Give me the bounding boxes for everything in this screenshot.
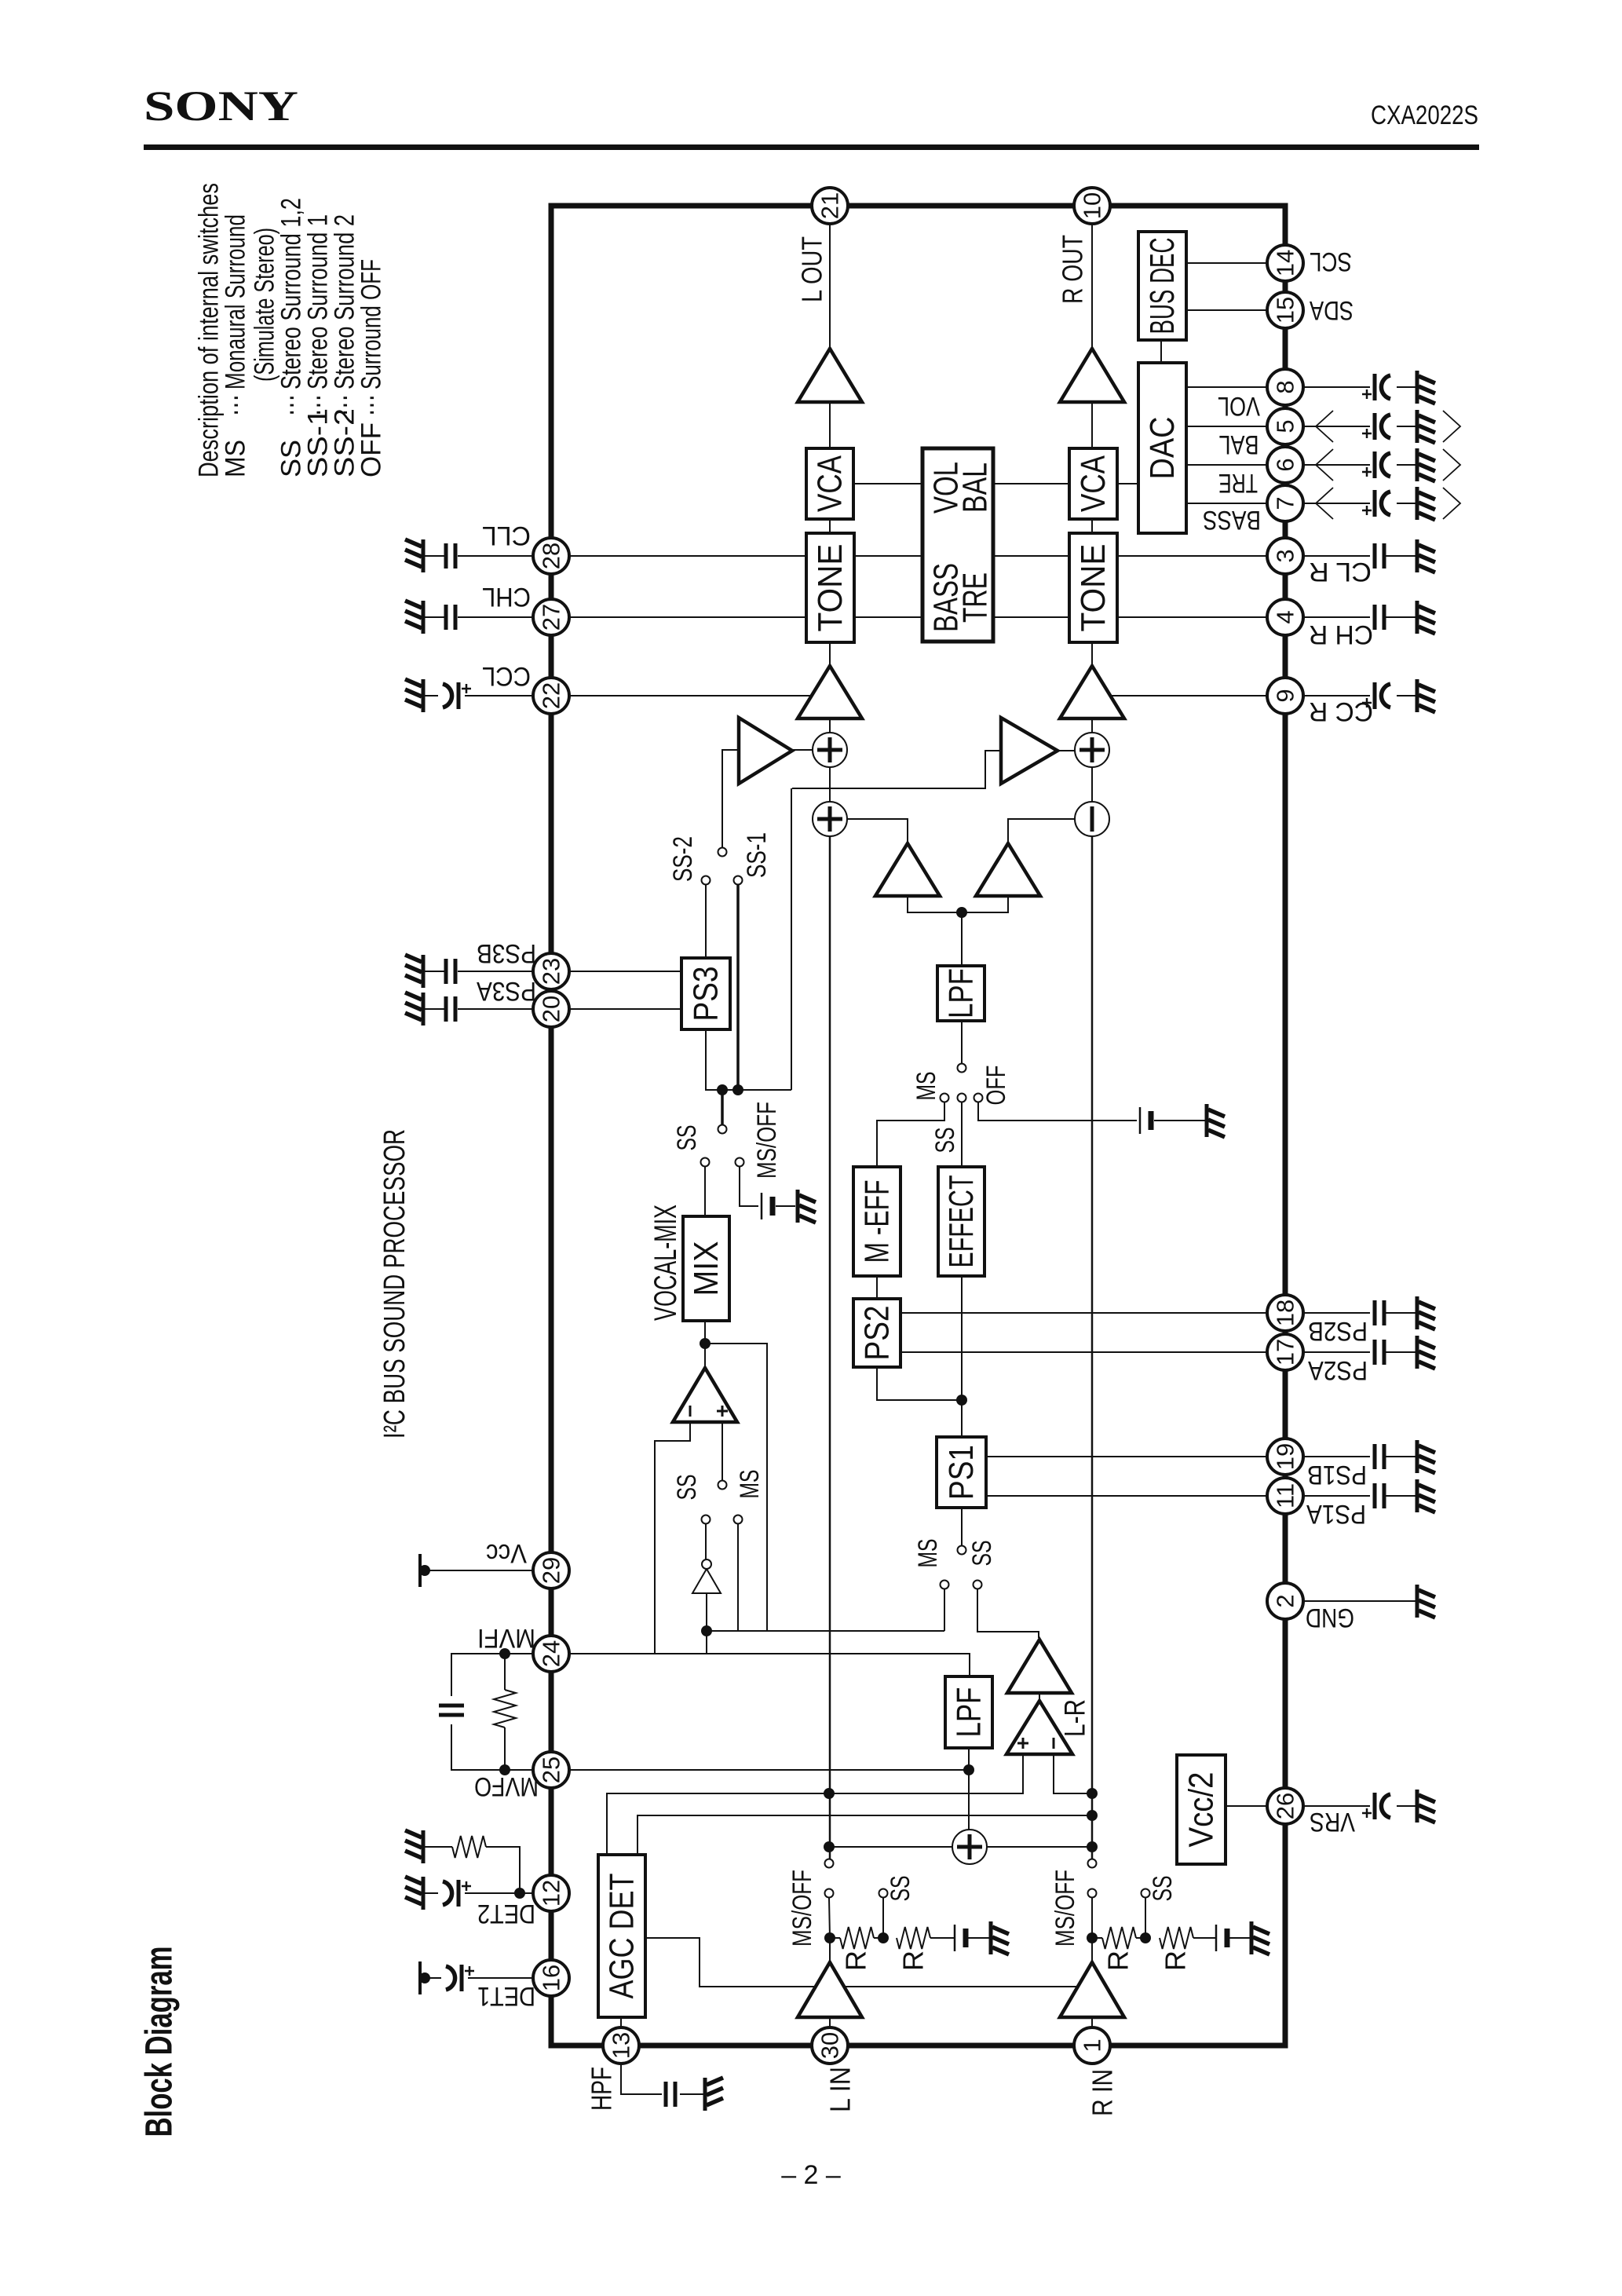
wire L gain amp to L sum1 xyxy=(792,749,813,751)
label R IN xyxy=(1087,2069,1119,2116)
block BUS DEC xyxy=(1138,232,1186,340)
label SDA xyxy=(1310,295,1353,325)
wire AGC gain control xyxy=(645,1938,1079,1987)
svg-text:MS: MS xyxy=(913,1539,943,1568)
label R SS xyxy=(1148,1876,1178,1902)
IC boundary xyxy=(551,206,1285,2046)
wire MVFI line pin24 to LPF xyxy=(569,1654,970,1676)
svg-text:MIX: MIX xyxy=(687,1241,725,1296)
label R feedback L2 xyxy=(897,1951,930,1971)
junction PS3 net B xyxy=(732,1084,743,1095)
page number xyxy=(781,2160,841,2190)
wire pin28 to external capacitor xyxy=(458,555,533,557)
svg-text:R: R xyxy=(897,1951,930,1971)
capacitor at pin 20 xyxy=(446,996,455,1022)
Vcc terminal xyxy=(419,1554,430,1587)
junction inverter MS net xyxy=(701,1625,712,1636)
switch PS1 throw SS xyxy=(974,1581,982,1589)
svg-text:SCL: SCL xyxy=(1310,247,1352,276)
wire capacitor to ground pin 8 xyxy=(1397,386,1416,388)
resistor R feedback L2 xyxy=(897,1927,955,1949)
block M-EFF xyxy=(853,1167,901,1276)
ground at pin 7 xyxy=(1417,487,1435,520)
svg-text:R IN: R IN xyxy=(1087,2069,1119,2116)
svg-text:SS-1: SS-1 xyxy=(742,832,772,878)
svg-text:SS: SS xyxy=(1148,1876,1178,1902)
wire pin13 HPF lead xyxy=(621,2064,662,2094)
svg-text:Block Diagram: Block Diagram xyxy=(139,1947,181,2137)
capacitor at pin 3 xyxy=(1375,543,1384,569)
wire rail CLL pin28 to CL R pin3 xyxy=(569,555,1267,557)
svg-text:DAC: DAC xyxy=(1143,417,1182,480)
wire PS1 to mode switch common xyxy=(961,1508,963,1545)
pin 1 (R IN) xyxy=(1074,2027,1110,2064)
svg-text:24: 24 xyxy=(538,1640,565,1667)
SONY logo xyxy=(144,82,298,130)
label CL R xyxy=(1309,557,1372,587)
svg-text:2: 2 xyxy=(1272,1594,1299,1607)
junction R chain adder xyxy=(1087,1841,1098,1852)
wire PS2 to pin17 xyxy=(901,1351,1267,1353)
svg-text:10: 10 xyxy=(1079,192,1106,219)
pin 16 (DET1) xyxy=(533,1960,569,1996)
part number CXA2022S xyxy=(1371,101,1478,130)
svg-text:SS: SS xyxy=(967,1541,997,1567)
junction DET2 xyxy=(514,1888,525,1899)
wire capacitor to ground pin 7 xyxy=(1397,503,1416,504)
svg-text:BAL: BAL xyxy=(1219,430,1259,459)
svg-text:VCA: VCA xyxy=(811,455,849,512)
svg-text:8: 8 xyxy=(1272,380,1299,393)
switch PS1 throw MS xyxy=(941,1581,949,1589)
svg-text:17: 17 xyxy=(1272,1339,1299,1366)
svg-text:25: 25 xyxy=(538,1757,565,1783)
wire pin30 to L input amp xyxy=(829,2017,831,2027)
svg-text:L-R: L-R xyxy=(1059,1699,1091,1737)
pin 15 (SDA) xyxy=(1267,292,1303,328)
wire R subtract to difference amp B xyxy=(1008,819,1075,843)
label TRE xyxy=(1218,468,1258,498)
junction MVFI resistor xyxy=(499,1648,510,1659)
wire pin7 to external capacitor xyxy=(1303,503,1370,504)
svg-text:EFFECT: EFFECT xyxy=(942,1175,981,1268)
svg-text:PS3A: PS3A xyxy=(477,976,536,1006)
wire capacitor to ground pin 20 xyxy=(425,1008,444,1010)
switch vocal common xyxy=(718,1481,727,1490)
wire capacitor to ground pin 28 xyxy=(425,555,444,557)
svg-text:PS2B: PS2B xyxy=(1308,1316,1368,1346)
wire pin23 to external capacitor xyxy=(458,971,533,972)
amplifier R output xyxy=(1060,349,1124,402)
wire L output amp to VCA L xyxy=(829,402,831,448)
amplifier L-R gain xyxy=(1007,1640,1072,1693)
capacitor at pin 18 xyxy=(1375,1300,1384,1325)
ground at pin 27 xyxy=(405,601,423,634)
wire pin1 to R input amp xyxy=(1091,2017,1093,2027)
pin 27 (CHL) xyxy=(533,599,569,635)
label R OUT xyxy=(1057,235,1089,304)
label mix MS/OFF xyxy=(752,1102,782,1179)
wire MS throw down xyxy=(737,1524,739,1631)
pin 22 (CCL) xyxy=(533,678,569,714)
inverter MVFI xyxy=(692,1559,721,1593)
capacitor at pin 17 xyxy=(1375,1340,1384,1365)
ground at pin 12 xyxy=(405,1877,423,1910)
wire BUS DEC to pin14 SCL xyxy=(1186,262,1267,264)
ground at pin 4 xyxy=(1417,601,1435,634)
label L SS xyxy=(886,1876,915,1902)
junction MVFO LPF xyxy=(963,1764,974,1775)
pin 18 (PS2B) xyxy=(1267,1295,1303,1331)
pin 4 (CH R) xyxy=(1267,599,1303,635)
wire SS throw to EFFECT xyxy=(961,1102,963,1167)
junction L chain adder xyxy=(824,1841,835,1852)
label vocal MS xyxy=(735,1470,765,1499)
svg-text:TRE: TRE xyxy=(1218,468,1258,498)
polarized capacitor at pin 5 xyxy=(1362,413,1390,440)
wire op amp plus to MS/SS switch xyxy=(721,1422,723,1480)
svg-text:9: 9 xyxy=(1272,689,1299,702)
svg-text:PS2: PS2 xyxy=(858,1306,897,1361)
ground at pin 2 xyxy=(1417,1585,1435,1618)
label DET2 xyxy=(477,1899,535,1929)
ground at pin 9 xyxy=(1417,679,1435,712)
wire capacitor to ground pin 5 xyxy=(1397,426,1416,427)
wire R post amp to R sum 1 xyxy=(1091,718,1093,733)
pin 5 (BAL) xyxy=(1267,408,1303,444)
svg-text:3: 3 xyxy=(1272,549,1299,562)
wire difference pair common xyxy=(908,896,1008,912)
amplifier R post tone xyxy=(1060,666,1124,718)
ground mix MS/OFF xyxy=(798,1190,816,1223)
switch vocal throw MS xyxy=(734,1515,743,1524)
junction PS3 net A xyxy=(717,1084,728,1095)
svg-text:21: 21 xyxy=(816,192,844,219)
label mix SS xyxy=(672,1125,702,1151)
svg-text:CCL: CCL xyxy=(482,661,531,691)
wire VCA R to TONE R xyxy=(1091,519,1093,533)
wire SS-1 node to R gain amp xyxy=(792,751,1001,788)
svg-text:Vcc: Vcc xyxy=(486,1538,527,1568)
wire PS1 to pin11 xyxy=(986,1495,1267,1497)
svg-text:MS/OFF: MS/OFF xyxy=(1050,1870,1080,1947)
switch mix common xyxy=(718,1125,727,1134)
wire MS/OFF throw to cap xyxy=(740,1167,758,1206)
switch SS-2/SS-1 common xyxy=(718,848,727,857)
wire SS-2 contact to PS3 xyxy=(705,885,707,958)
subtract node R xyxy=(1075,802,1109,836)
switch mix throw SS xyxy=(701,1158,710,1167)
amplifier L post tone xyxy=(798,666,862,718)
switch effect throw OFF xyxy=(974,1094,983,1102)
svg-text:28: 28 xyxy=(538,543,565,569)
wire pin5 to external capacitor xyxy=(1303,426,1370,427)
capacitor at pin 11 xyxy=(1375,1483,1384,1508)
wire pin19 to external capacitor xyxy=(1303,1456,1370,1457)
label CC R xyxy=(1309,696,1373,726)
pin 7 (BASS) xyxy=(1267,485,1303,521)
svg-text:SDA: SDA xyxy=(1310,295,1353,325)
wire MS throw to M-EFF xyxy=(877,1102,944,1167)
wire L chain switch to feedback node xyxy=(829,1898,830,1962)
wire OFF cap to ground xyxy=(1154,1120,1205,1121)
wire DAC to pin8 VOL xyxy=(1186,386,1267,388)
note MS monaural surround xyxy=(221,214,251,477)
wire PS3 net riser xyxy=(791,788,792,1090)
ground at pin 8 xyxy=(1417,371,1435,404)
pin 28 (CLL) xyxy=(533,538,569,574)
amplifier SS gain L xyxy=(739,718,792,784)
wire L sum2 to difference amp A xyxy=(847,819,908,843)
svg-text:L OUT: L OUT xyxy=(796,236,828,302)
wire L SS contact to node xyxy=(882,1898,884,1938)
svg-text:PS1: PS1 xyxy=(942,1445,981,1500)
svg-text:MS: MS xyxy=(911,1072,941,1101)
wire capacitor to ground pin 26 xyxy=(1397,1805,1416,1807)
wire pin29 Vcc lead xyxy=(425,1570,533,1571)
wire feedback cap R to ground xyxy=(1229,1937,1250,1939)
label PS1B xyxy=(1307,1460,1367,1490)
wire PS1 SS throw to L-R amp xyxy=(977,1589,1039,1638)
block Vcc/2 xyxy=(1177,1755,1226,1864)
block TONE R xyxy=(1069,533,1117,642)
label BAL xyxy=(1219,430,1259,459)
polarized capacitor at pin 6 xyxy=(1362,452,1390,478)
svg-text:Surround OFF: Surround OFF xyxy=(356,259,387,389)
junction L feedback xyxy=(824,1932,835,1943)
svg-text:BUS DEC: BUS DEC xyxy=(1143,238,1182,335)
wire mix cap to ground xyxy=(776,1205,795,1207)
wire PS2 to pin18 xyxy=(901,1312,1267,1314)
capacitor HPF xyxy=(666,2082,675,2107)
switch throw SS-1 xyxy=(734,876,743,885)
junction MVFO resistor xyxy=(499,1764,510,1775)
switch throw SS-2 xyxy=(702,876,711,885)
label R feedback L1 xyxy=(840,1951,872,1971)
junction R chain L-R minus xyxy=(1087,1788,1098,1799)
svg-text:SONY: SONY xyxy=(144,82,298,130)
summing node R 1 xyxy=(1075,733,1109,767)
ground at pin 20 xyxy=(405,993,423,1026)
svg-text:– 2 –: – 2 – xyxy=(781,2160,841,2190)
svg-text:TONE: TONE xyxy=(811,544,849,632)
polarized capacitor at pin 16 xyxy=(446,1965,474,1991)
svg-text:OFF: OFF xyxy=(356,422,387,477)
note SS stereo surround 1,2 xyxy=(276,198,307,477)
block DAC xyxy=(1138,363,1186,533)
wire capacitor to ground pin 11 xyxy=(1386,1495,1416,1497)
svg-text:Vcc/2: Vcc/2 xyxy=(1182,1772,1221,1848)
svg-text:1: 1 xyxy=(1079,2038,1106,2052)
label effect SS xyxy=(930,1128,960,1153)
polarized capacitor at pin 9 xyxy=(1362,682,1390,709)
resistor R feedback L1 xyxy=(830,1927,883,1949)
label I2C BUS SOUND PROCESSOR xyxy=(378,1129,411,1439)
label CLL xyxy=(482,521,531,550)
wire feedback cap L to ground xyxy=(967,1937,989,1939)
wire resistor branch top xyxy=(504,1654,506,1690)
wire pin20 to PS3 xyxy=(569,1008,681,1010)
switch effect throw MS xyxy=(941,1094,949,1102)
svg-text:26: 26 xyxy=(1272,1793,1299,1819)
note SS-1 stereo surround 1 xyxy=(303,214,334,477)
label effect MS xyxy=(911,1072,941,1101)
svg-text:SS: SS xyxy=(672,1125,702,1151)
block LPF mid xyxy=(937,966,985,1021)
block MIX xyxy=(683,1216,729,1321)
label SS-1 xyxy=(742,832,772,878)
DET1 terminal xyxy=(419,1961,430,1994)
wire capacitor to ground pin 27 xyxy=(425,616,444,618)
block LPF bottom xyxy=(945,1676,992,1748)
svg-text:PS1B: PS1B xyxy=(1307,1460,1367,1490)
wire SS-1 contact down xyxy=(736,885,740,1090)
wire SS throw to MIX xyxy=(704,1167,706,1216)
capacitor at pin 27 xyxy=(446,605,455,630)
wire external RC top xyxy=(451,1654,533,1696)
note simulate stereo xyxy=(250,228,280,382)
pin 8 (VOL) xyxy=(1267,369,1303,405)
wire capacitor to ground pin 23 xyxy=(425,971,444,972)
capacitor at pin 28 xyxy=(446,543,455,569)
label VOL xyxy=(1218,391,1260,421)
ground feedback L xyxy=(991,1921,1009,1954)
wire pin4 to external capacitor xyxy=(1303,616,1370,618)
svg-text:BASS: BASS xyxy=(1203,505,1261,535)
label L-R xyxy=(1059,1699,1091,1737)
label R feedback R2 xyxy=(1160,1951,1192,1971)
pin 25 (MVFO) xyxy=(533,1752,569,1788)
label BASS xyxy=(1203,505,1261,535)
ground at pin 17 xyxy=(1417,1336,1435,1369)
wire L chain to adder xyxy=(829,1846,952,1848)
wire pin21 to L output amp xyxy=(829,224,831,349)
resistor DET2 xyxy=(425,1836,486,1858)
wire PS1 to pin19 xyxy=(986,1456,1267,1457)
wire R output amp to VCA R xyxy=(1091,402,1093,448)
wire capacitor to ground pin 12 xyxy=(425,1892,438,1894)
label PS3A xyxy=(477,976,536,1006)
wire pin26 to external capacitor xyxy=(1303,1805,1370,1807)
ground at pin 23 xyxy=(405,955,423,988)
wire LPF to effect switch common xyxy=(961,1021,963,1063)
label PS1 MS xyxy=(913,1539,943,1568)
label HPF xyxy=(586,2067,618,2111)
pin 13 (HPF) xyxy=(603,2027,639,2064)
switch R chain MS/OFF a xyxy=(1088,1859,1097,1868)
junction L chain AGC tap xyxy=(824,1788,835,1799)
svg-text:TRE: TRE xyxy=(956,572,995,623)
svg-text:SS: SS xyxy=(886,1876,915,1902)
switch L chain MS/OFF b xyxy=(825,1889,834,1898)
junction R chain AGC tap xyxy=(1087,1810,1098,1821)
svg-text:20: 20 xyxy=(538,996,565,1022)
wire pin23 to PS3 xyxy=(569,971,681,972)
label GND xyxy=(1306,1603,1354,1632)
svg-text:TONE: TONE xyxy=(1074,544,1112,632)
junction R feedback xyxy=(1087,1932,1098,1943)
mono adder xyxy=(952,1830,987,1864)
capacitor at pin 4 xyxy=(1375,605,1384,630)
wire SS throw to inverter xyxy=(705,1524,707,1559)
capacitor OFF to ground xyxy=(1140,1107,1151,1134)
wire pin2 GND lead xyxy=(1303,1600,1416,1602)
svg-text:30: 30 xyxy=(816,2032,844,2059)
svg-text:29: 29 xyxy=(538,1557,565,1584)
switch effect common xyxy=(958,1064,966,1073)
amplifier R input xyxy=(1060,1962,1124,2017)
label Vcc xyxy=(486,1538,527,1568)
wire EFFECT output xyxy=(961,1276,963,1437)
optional marks pin 7 xyxy=(1316,488,1460,519)
svg-text:PS3B: PS3B xyxy=(477,938,536,968)
wire capacitor to ground pin 4 xyxy=(1386,616,1416,618)
label PS1 SS xyxy=(967,1541,997,1567)
pin 30 (L IN) xyxy=(812,2027,848,2064)
svg-text:MS/OFF: MS/OFF xyxy=(752,1102,782,1179)
wire mix switch common xyxy=(721,1090,724,1124)
svg-text:R: R xyxy=(840,1951,872,1971)
junction effect to PS1 xyxy=(956,1395,967,1406)
resistor R feedback R1 xyxy=(1092,1927,1145,1949)
svg-text:BAL: BAL xyxy=(956,462,995,513)
svg-text:VOCAL-MIX: VOCAL-MIX xyxy=(648,1205,683,1321)
wire L-R minus input xyxy=(1054,1754,1090,1793)
svg-text:SS-2: SS-2 xyxy=(668,836,698,882)
svg-text:19: 19 xyxy=(1272,1443,1299,1470)
pin 20 (PS3A) xyxy=(533,991,569,1027)
wire R sum1 to R subtract xyxy=(1091,767,1093,802)
wire L-R plus input xyxy=(831,1754,1023,1793)
wire L sum1 to L sum2 xyxy=(829,767,831,802)
note OFF surround off xyxy=(356,259,387,477)
wire pin12 to external parts xyxy=(465,1892,533,1894)
pin 17 (PS2A) xyxy=(1267,1334,1303,1370)
block VCA L xyxy=(806,448,853,519)
wire BUS DEC to pin15 SDA xyxy=(1186,309,1267,311)
wire BUS DEC to DAC xyxy=(1160,340,1162,363)
block VCA R xyxy=(1069,448,1117,519)
ground at pin 3 xyxy=(1417,539,1435,572)
label BASS TRE xyxy=(927,563,995,632)
ground feedback R xyxy=(1251,1921,1269,1954)
svg-text:22: 22 xyxy=(538,682,565,709)
wire L post amp to L sum 1 xyxy=(829,718,831,733)
svg-text:Monaural Surround: Monaural Surround xyxy=(221,214,251,389)
wire capacitor to terminal pin16 xyxy=(425,1977,441,1979)
wire DAC to pin7 BASS xyxy=(1186,503,1267,504)
svg-text:R: R xyxy=(1160,1951,1192,1971)
external resistor MVFI-MVFO xyxy=(494,1690,516,1727)
label effect OFF xyxy=(981,1066,1011,1106)
label SCL xyxy=(1310,247,1352,276)
svg-text:11: 11 xyxy=(1272,1483,1299,1508)
svg-text:LPF: LPF xyxy=(942,968,981,1018)
junction L feedback SS xyxy=(878,1932,889,1943)
svg-text:4: 4 xyxy=(1272,610,1299,623)
junction R feedback SS xyxy=(1140,1932,1151,1943)
polarized capacitor at pin 8 xyxy=(1362,374,1390,400)
svg-text:MVFI: MVFI xyxy=(477,1623,535,1653)
wire pin8 to external capacitor xyxy=(1303,386,1370,388)
wire inverter to MVFI line xyxy=(706,1593,707,1654)
pin 10 (R OUT) xyxy=(1074,188,1110,224)
svg-text:AGC DET: AGC DET xyxy=(603,1874,641,1999)
wire PS3 bottom to SS-1 net xyxy=(706,1029,791,1090)
svg-text:13: 13 xyxy=(608,2032,635,2059)
block AGC DET xyxy=(598,1855,645,2017)
wire op amp minus to MVFI xyxy=(655,1422,690,1654)
